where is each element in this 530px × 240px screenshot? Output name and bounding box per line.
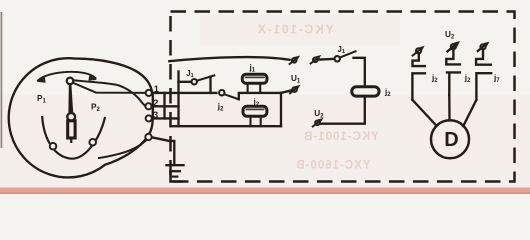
svg-text:YKC-101-X: YKC-101-X bbox=[256, 23, 333, 37]
wire coil to plug U2 bbox=[321, 96, 365, 124]
dashed enclosure box bbox=[171, 12, 515, 182]
wire middle net to plug U1 bbox=[281, 91, 291, 93]
motor unit 2: plug arrow bbox=[447, 41, 460, 51]
wire terminal 4 bbox=[152, 137, 175, 141]
needle shaft bbox=[68, 85, 73, 113]
needle hub ring bbox=[67, 113, 75, 121]
top wire (net to plug U1 upper) bbox=[169, 57, 289, 61]
inner dial arc bbox=[42, 117, 105, 159]
wire J1 to middle net bbox=[209, 77, 211, 93]
wire terminal 3 bbox=[152, 117, 179, 119]
set-point ring left bbox=[50, 143, 57, 150]
wire to relay coil j2 bbox=[354, 58, 365, 87]
plug arrow upper-left pair B bbox=[311, 55, 322, 64]
motor unit 3: contact j7 bbox=[476, 49, 491, 64]
watermark bleed-through text middle bbox=[303, 131, 379, 143]
contact j2 blade bbox=[224, 94, 238, 99]
relay coil j2 bbox=[352, 87, 379, 96]
terminal ring 2 bbox=[145, 103, 151, 109]
wire needle ring to terminal 2 bbox=[74, 80, 145, 105]
watermark bleed-through text top bbox=[256, 23, 333, 37]
capacitor j2 inner streak bbox=[246, 108, 263, 110]
svg-text:2: 2 bbox=[153, 98, 158, 108]
motor unit 2: contact j2 bbox=[446, 49, 460, 64]
needle counterweight bbox=[68, 121, 75, 138]
svg-text:D: D bbox=[444, 129, 458, 151]
terminal ring 3 bbox=[146, 115, 152, 121]
ground wire bbox=[173, 141, 175, 165]
motor unit 1: plug arrow bbox=[413, 46, 425, 56]
motor unit 2: wire to motor bbox=[448, 95, 451, 120]
wire terminal 1 to contact j2 bbox=[152, 92, 217, 94]
wire needle ring to terminal 1 bbox=[73, 83, 144, 93]
dashed box bottom-left corner piece bbox=[171, 170, 184, 182]
capacitor j2 stem bbox=[251, 116, 261, 126]
svg-text:YXC-1600-B: YXC-1600-B bbox=[295, 160, 370, 172]
capacitor j2 plate bbox=[243, 106, 267, 116]
watermark bleed-through text bottom bbox=[295, 160, 370, 172]
contact J1 blade bbox=[197, 75, 215, 80]
contact J1 right blade bbox=[340, 51, 356, 57]
contact j2 ring bbox=[219, 90, 224, 95]
plug arrow U2 bbox=[313, 118, 324, 127]
svg-text:1: 1 bbox=[154, 84, 159, 94]
motor unit 3: plug arrow bbox=[478, 42, 490, 51]
ground bbox=[167, 164, 184, 166]
contact J1 right ring bbox=[335, 56, 340, 61]
riser bus A bbox=[163, 93, 165, 119]
meter outer case outline bbox=[9, 58, 153, 177]
svg-text:3: 3 bbox=[153, 110, 158, 120]
motor unit 1: wire to motor bbox=[412, 100, 436, 126]
pink strip bottom edge bbox=[0, 188, 530, 195]
motor D circle bbox=[431, 120, 469, 158]
wire to relay contact J1 bbox=[179, 81, 192, 83]
riser bus B bbox=[177, 72, 179, 127]
inner case arc bottom right from terminal 4 bbox=[99, 140, 146, 158]
wire plug B to contact J1 right bbox=[318, 58, 334, 61]
motor unit 3: wire to motor bbox=[463, 100, 476, 126]
paper tint lower half bbox=[0, 95, 530, 188]
capacitor j1 stem bbox=[248, 84, 261, 93]
set-point ring right bbox=[89, 139, 96, 146]
capacitor j1 inner streak bbox=[246, 76, 264, 78]
contact J1 ring bbox=[192, 79, 197, 84]
plug arrow upper-left pair A bbox=[290, 56, 301, 65]
capacitor j1 plate bbox=[242, 74, 267, 83]
svg-text:YKC-1001-B: YKC-1001-B bbox=[303, 131, 379, 143]
right riser of cluster bbox=[280, 93, 282, 126]
needle tail bbox=[70, 138, 72, 142]
wire terminal 2 bbox=[152, 105, 179, 107]
plug arrow U1 bbox=[290, 85, 301, 94]
bottom wire of cluster bbox=[171, 125, 281, 127]
terminal ring 4 bbox=[145, 134, 151, 140]
terminal ring 1 bbox=[146, 90, 152, 96]
scale arc with arrows bbox=[38, 72, 96, 81]
wire blade to middle wire bbox=[239, 93, 281, 99]
scan smudge left edge bbox=[1, 12, 3, 148]
motor unit 1: contact j2 bbox=[413, 53, 425, 66]
needle pivot ring bbox=[67, 78, 74, 85]
